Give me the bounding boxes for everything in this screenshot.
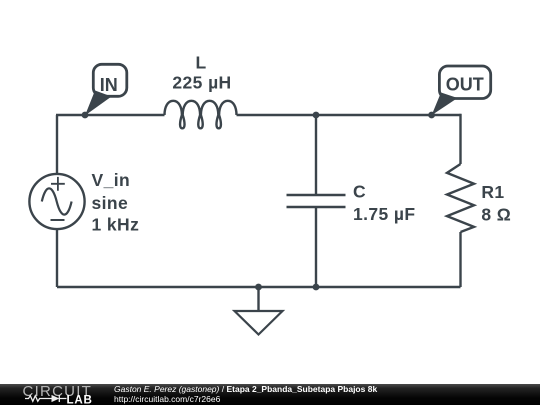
capacitor C bottom plate <box>287 206 346 209</box>
ground triangle symbol <box>235 311 283 335</box>
callout OUT tail <box>432 93 458 116</box>
voltage source sine wave <box>42 188 72 214</box>
svg-text:sine: sine <box>92 193 129 213</box>
wire capacitor bottom lead <box>315 207 317 287</box>
voltage source minus sign <box>51 219 65 221</box>
svg-text:OUT: OUT <box>446 75 484 95</box>
resistor R1 zigzag <box>447 164 474 232</box>
svg-text:225 µH: 225 µH <box>172 72 231 92</box>
wire top-middle horizontal <box>237 114 461 116</box>
inductor L coil <box>165 101 237 129</box>
svg-text:C: C <box>353 182 366 202</box>
wire left vertical upper <box>56 115 58 174</box>
svg-text:IN: IN <box>100 75 118 95</box>
callout IN tail <box>85 91 112 116</box>
node callout IN box <box>93 64 127 96</box>
wire top-right corner down to R1 <box>460 115 461 164</box>
wire bottom horizontal <box>57 286 461 288</box>
svg-text:1.75 µF: 1.75 µF <box>353 204 416 224</box>
node dot capacitor bottom junction <box>313 284 320 291</box>
ground stub wire <box>257 287 259 311</box>
node dot OUT <box>428 112 435 119</box>
wire capacitor top lead <box>315 115 317 195</box>
voltage source V_in circle <box>29 174 84 229</box>
footer text <box>114 385 377 404</box>
node dot capacitor top junction <box>313 112 320 119</box>
svg-text:8 Ω: 8 Ω <box>481 205 511 225</box>
node dot IN <box>82 112 89 119</box>
svg-text:V_in: V_in <box>92 170 131 190</box>
svg-text:1 kHz: 1 kHz <box>92 215 140 235</box>
svg-text:R1: R1 <box>481 182 504 202</box>
wire left vertical lower <box>56 229 58 287</box>
CircuitLab logo <box>0 384 110 405</box>
node callout OUT box <box>439 66 490 99</box>
footer black bar <box>0 384 540 405</box>
svg-text:L: L <box>195 53 206 73</box>
voltage source plus sign <box>51 177 65 191</box>
node dot ground junction <box>255 284 262 291</box>
wire top-left horizontal <box>56 114 165 116</box>
wire right vertical lower (R1 to bottom) <box>459 232 461 287</box>
svg-text:LAB: LAB <box>67 394 93 405</box>
capacitor C top plate <box>287 194 346 197</box>
